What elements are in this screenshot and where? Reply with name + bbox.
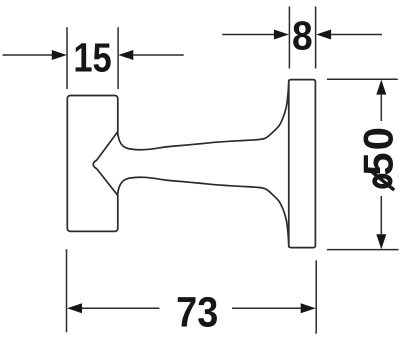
dim 8: right leader shaft bbox=[331, 34, 382, 36]
dim 73: left extension line bbox=[66, 249, 68, 332]
svg-text:73: 73 bbox=[176, 287, 218, 336]
dim 73: right arrowhead bbox=[301, 303, 316, 313]
dim 15: right arrowhead bbox=[118, 50, 133, 60]
stem profile with chevron silhouette bbox=[93, 80, 289, 247]
dim o50: top tick line bbox=[327, 78, 398, 80]
dim 8: left leader shaft bbox=[222, 34, 274, 36]
dim 8: right extension line bbox=[315, 7, 317, 69]
dim o50: bottom arrowhead bbox=[376, 234, 386, 249]
dim 8: left arrowhead bbox=[274, 30, 289, 40]
dim 15: left extension line bbox=[66, 27, 68, 89]
dim 73: left leader shaft bbox=[82, 307, 159, 309]
dim o50: lower shaft bbox=[380, 196, 382, 234]
dim 73: left arrowhead bbox=[67, 303, 82, 313]
svg-text:50: 50 bbox=[354, 125, 400, 176]
dim 15: left leader shaft bbox=[3, 54, 54, 56]
dim 8: right arrowhead bbox=[316, 30, 331, 40]
dim 73: right extension line bbox=[315, 260, 317, 333]
dim 15: right leader shaft bbox=[133, 54, 183, 56]
dim 73: right leader shaft bbox=[232, 307, 301, 309]
dim o50: diameter symbol ring bbox=[375, 176, 391, 186]
svg-text:8: 8 bbox=[292, 14, 313, 59]
wall plate (right disc, side view) bbox=[289, 80, 316, 248]
dim 15: right extension line bbox=[117, 27, 119, 89]
knob face (left disc, side view) bbox=[67, 96, 118, 232]
svg-text:15: 15 bbox=[73, 36, 111, 81]
dim o50: diameter symbol slash bbox=[371, 171, 394, 190]
dim 15: left arrowhead bbox=[52, 50, 67, 60]
dim 8: left extension line bbox=[288, 7, 290, 69]
dim o50: top arrowhead bbox=[376, 80, 386, 95]
dim o50: upper shaft bbox=[380, 95, 382, 121]
dim o50: bottom tick line bbox=[327, 249, 399, 251]
